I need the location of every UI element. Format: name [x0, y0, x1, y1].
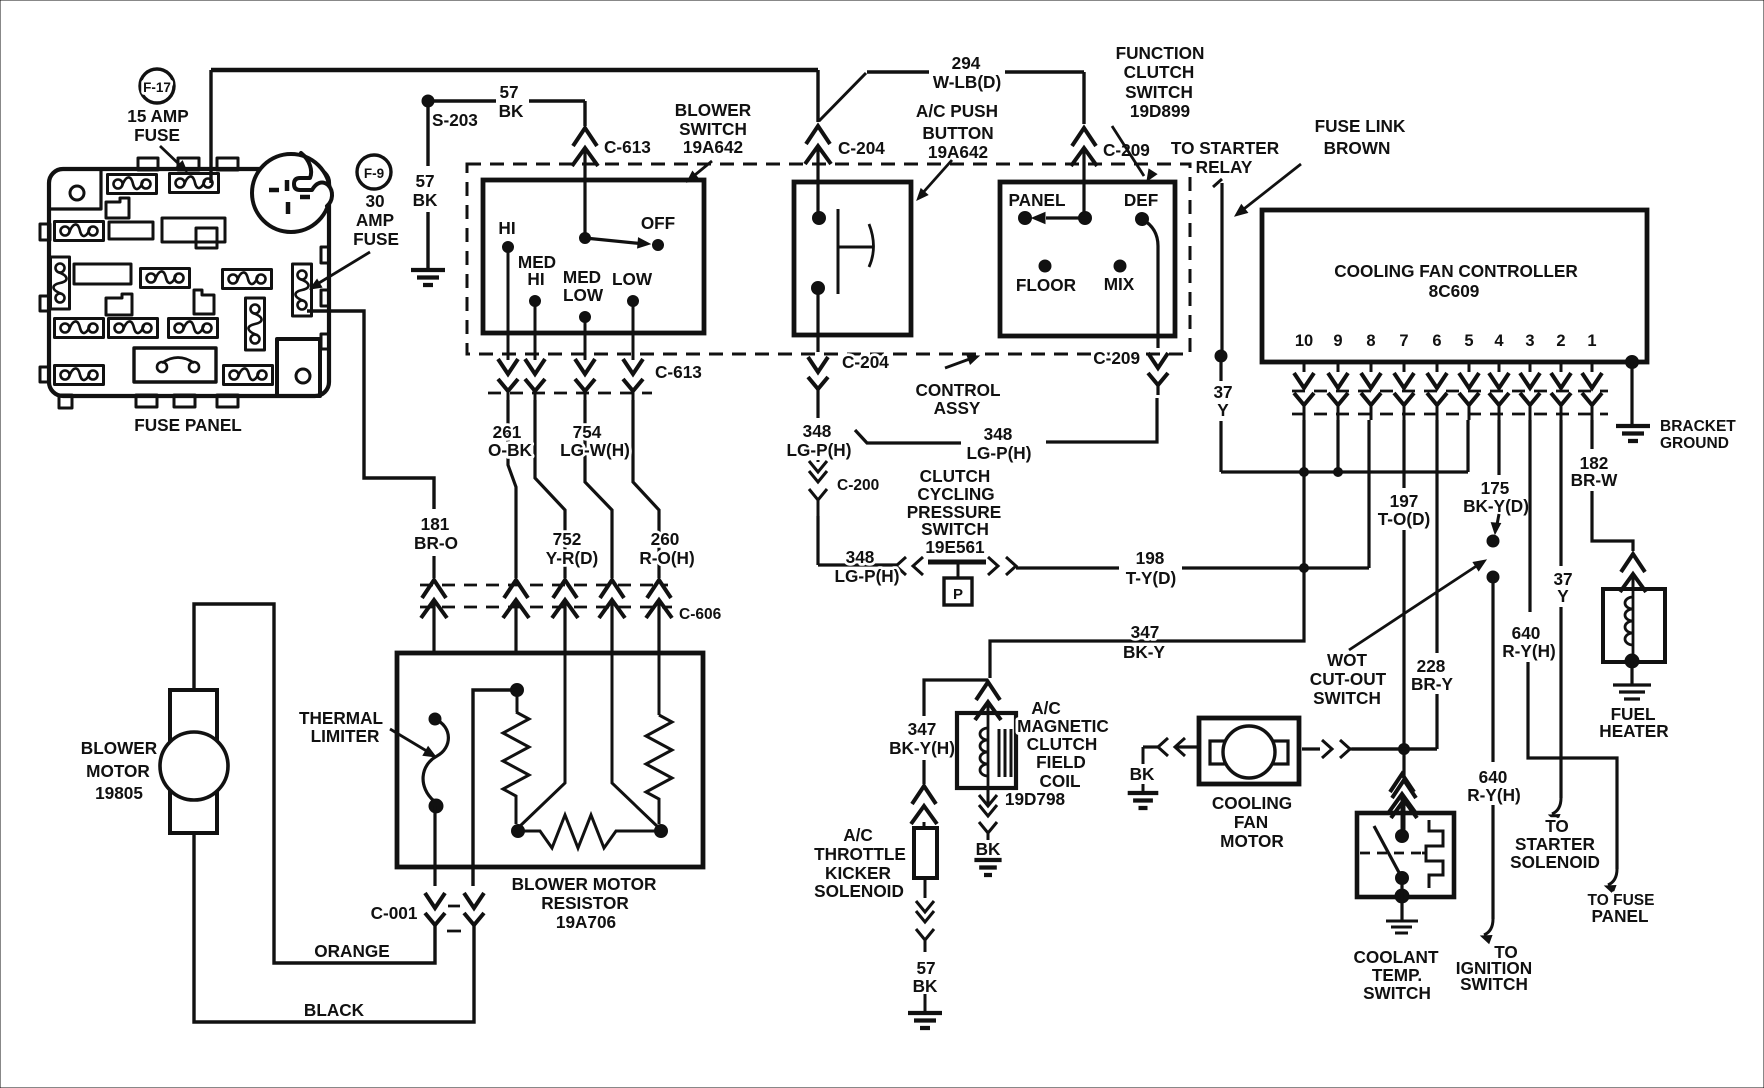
svg-text:A/C PUSH: A/C PUSH — [916, 101, 998, 121]
svg-text:197: 197 — [1390, 491, 1419, 511]
svg-text:C-204: C-204 — [838, 138, 885, 158]
svg-text:RESISTOR: RESISTOR — [541, 893, 629, 913]
svg-text:7: 7 — [1399, 332, 1408, 350]
svg-text:MED: MED — [563, 267, 601, 287]
svg-text:10: 10 — [1295, 332, 1313, 350]
svg-text:Y: Y — [1217, 400, 1229, 420]
svg-text:MAGNETIC: MAGNETIC — [1017, 716, 1109, 736]
svg-text:COIL: COIL — [1039, 771, 1080, 791]
svg-text:COOLING: COOLING — [1212, 793, 1292, 813]
svg-text:LG-P(H): LG-P(H) — [787, 440, 852, 460]
svg-text:OFF: OFF — [641, 213, 675, 233]
svg-text:BK-Y: BK-Y — [1123, 642, 1166, 662]
svg-text:CUT-OUT: CUT-OUT — [1310, 669, 1387, 689]
svg-text:WOT: WOT — [1327, 650, 1368, 670]
svg-text:THROTTLE: THROTTLE — [814, 844, 906, 864]
svg-text:3: 3 — [1525, 332, 1534, 350]
svg-text:19A642: 19A642 — [928, 142, 988, 162]
svg-text:260: 260 — [651, 529, 680, 549]
svg-text:19A706: 19A706 — [556, 912, 616, 932]
svg-text:181: 181 — [421, 514, 450, 534]
svg-text:PANEL: PANEL — [1592, 906, 1649, 926]
svg-text:O-BK: O-BK — [488, 440, 533, 460]
svg-text:C-200: C-200 — [837, 477, 879, 494]
svg-text:PANEL: PANEL — [1009, 190, 1066, 210]
svg-text:BRACKET: BRACKET — [1660, 418, 1736, 435]
svg-text:BK: BK — [413, 190, 438, 210]
svg-text:FUSE PANEL: FUSE PANEL — [134, 415, 242, 435]
svg-text:HEATER: HEATER — [1599, 721, 1669, 741]
svg-text:1: 1 — [1587, 332, 1596, 350]
svg-text:T-O(D): T-O(D) — [1378, 509, 1431, 529]
svg-text:SWITCH: SWITCH — [921, 519, 989, 539]
svg-text:8: 8 — [1366, 332, 1375, 350]
svg-text:THERMAL: THERMAL — [299, 708, 383, 728]
svg-text:SWITCH: SWITCH — [1460, 974, 1528, 994]
svg-text:SOLENOID: SOLENOID — [1510, 852, 1600, 872]
svg-text:SOLENOID: SOLENOID — [814, 881, 904, 901]
svg-text:37: 37 — [1213, 382, 1232, 402]
svg-text:TO STARTER: TO STARTER — [1171, 138, 1280, 158]
svg-text:SWITCH: SWITCH — [679, 119, 747, 139]
svg-text:Y-R(D): Y-R(D) — [546, 548, 599, 568]
svg-text:BLOWER: BLOWER — [675, 100, 752, 120]
svg-text:P: P — [953, 586, 963, 603]
svg-text:FLOOR: FLOOR — [1016, 275, 1077, 295]
svg-text:LIMITER: LIMITER — [311, 726, 380, 746]
svg-text:348: 348 — [803, 421, 832, 441]
svg-text:LG-P(H): LG-P(H) — [835, 566, 900, 586]
svg-text:SWITCH: SWITCH — [1125, 82, 1193, 102]
svg-text:BK: BK — [913, 976, 938, 996]
svg-text:C-209: C-209 — [1093, 348, 1140, 368]
svg-text:15 AMP: 15 AMP — [127, 106, 188, 126]
svg-text:FUSE: FUSE — [134, 125, 180, 145]
svg-text:CLUTCH: CLUTCH — [1027, 734, 1098, 754]
svg-text:294: 294 — [952, 53, 981, 73]
svg-text:CLUTCH: CLUTCH — [920, 466, 991, 486]
svg-text:FUSE LINK: FUSE LINK — [1315, 116, 1406, 136]
svg-text:C-204: C-204 — [842, 352, 889, 372]
svg-text:TO: TO — [1545, 816, 1569, 836]
svg-text:30: 30 — [365, 191, 384, 211]
svg-text:347: 347 — [908, 719, 937, 739]
svg-text:BUTTON: BUTTON — [922, 123, 993, 143]
svg-text:640: 640 — [1512, 623, 1541, 643]
svg-text:CLUTCH: CLUTCH — [1124, 62, 1195, 82]
svg-text:9: 9 — [1333, 332, 1342, 350]
svg-text:4: 4 — [1494, 332, 1504, 350]
svg-text:C-001: C-001 — [371, 903, 418, 923]
svg-text:BLOWER MOTOR: BLOWER MOTOR — [512, 874, 657, 894]
svg-text:BK-Y(H): BK-Y(H) — [889, 738, 955, 758]
svg-text:Y: Y — [1557, 586, 1569, 606]
svg-text:640: 640 — [1479, 767, 1508, 787]
svg-text:LOW: LOW — [612, 269, 653, 289]
svg-text:STARTER: STARTER — [1515, 834, 1595, 854]
svg-text:C-613: C-613 — [604, 137, 651, 157]
svg-text:S-203: S-203 — [432, 110, 478, 130]
svg-text:BLOWER: BLOWER — [81, 738, 158, 758]
svg-text:C-613: C-613 — [655, 362, 702, 382]
svg-text:19E561: 19E561 — [925, 537, 985, 557]
svg-text:19805: 19805 — [95, 783, 143, 803]
svg-text:198: 198 — [1136, 548, 1165, 568]
svg-text:FUNCTION: FUNCTION — [1116, 43, 1205, 63]
svg-text:261: 261 — [493, 422, 522, 442]
svg-text:A/C: A/C — [1031, 698, 1061, 718]
svg-text:BK: BK — [976, 839, 1001, 859]
svg-text:SWITCH: SWITCH — [1313, 688, 1381, 708]
svg-text:19A642: 19A642 — [683, 137, 743, 157]
svg-text:COOLANT: COOLANT — [1354, 947, 1439, 967]
svg-text:HI: HI — [527, 269, 544, 289]
svg-text:BK: BK — [499, 101, 524, 121]
svg-text:BLACK: BLACK — [304, 1000, 365, 1020]
svg-text:AMP: AMP — [356, 210, 394, 230]
svg-text:FUSE: FUSE — [353, 229, 399, 249]
svg-text:57: 57 — [415, 171, 434, 191]
svg-text:KICKER: KICKER — [825, 863, 891, 883]
svg-text:19D798: 19D798 — [1005, 789, 1066, 809]
svg-text:CYCLING: CYCLING — [917, 484, 994, 504]
svg-text:HI: HI — [498, 218, 515, 238]
svg-text:C-606: C-606 — [679, 606, 722, 623]
svg-text:2: 2 — [1556, 332, 1565, 350]
svg-text:19D899: 19D899 — [1130, 101, 1190, 121]
svg-text:BR-O: BR-O — [414, 533, 458, 553]
svg-text:754: 754 — [573, 422, 602, 442]
svg-text:57: 57 — [916, 958, 935, 978]
svg-text:175: 175 — [1481, 478, 1510, 498]
svg-text:TEMP.: TEMP. — [1372, 965, 1422, 985]
svg-text:348: 348 — [846, 547, 875, 567]
svg-text:BK: BK — [1130, 764, 1155, 784]
svg-text:348: 348 — [984, 424, 1013, 444]
svg-text:F-17: F-17 — [143, 80, 171, 95]
svg-text:R-Y(H): R-Y(H) — [1502, 641, 1555, 661]
svg-text:BK-Y(D): BK-Y(D) — [1463, 496, 1529, 516]
svg-text:LG-P(H): LG-P(H) — [967, 443, 1032, 463]
svg-text:FIELD: FIELD — [1036, 752, 1086, 772]
svg-text:ASSY: ASSY — [934, 398, 981, 418]
svg-text:MOTOR: MOTOR — [1220, 831, 1284, 851]
svg-text:BR-Y: BR-Y — [1411, 674, 1454, 694]
svg-text:SWITCH: SWITCH — [1363, 983, 1431, 1003]
svg-text:347: 347 — [1131, 622, 1160, 642]
svg-text:LG-W(H): LG-W(H) — [560, 440, 630, 460]
svg-text:5: 5 — [1464, 332, 1473, 350]
svg-text:T-Y(D): T-Y(D) — [1126, 568, 1177, 588]
svg-text:MOTOR: MOTOR — [86, 761, 150, 781]
svg-text:A/C: A/C — [843, 825, 873, 845]
svg-text:ORANGE: ORANGE — [314, 941, 389, 961]
svg-text:752: 752 — [553, 529, 582, 549]
svg-text:BROWN: BROWN — [1324, 138, 1391, 158]
svg-text:CONTROL: CONTROL — [916, 380, 1001, 400]
svg-text:COOLING FAN CONTROLLER: COOLING FAN CONTROLLER — [1334, 261, 1578, 281]
svg-text:BR-W: BR-W — [1571, 470, 1619, 490]
svg-text:MIX: MIX — [1104, 274, 1135, 294]
svg-text:228: 228 — [1417, 656, 1446, 676]
svg-text:RELAY: RELAY — [1196, 157, 1253, 177]
svg-text:DEF: DEF — [1124, 190, 1158, 210]
svg-text:LOW: LOW — [563, 285, 604, 305]
svg-text:6: 6 — [1432, 332, 1441, 350]
svg-text:R-O(H): R-O(H) — [639, 548, 694, 568]
svg-text:F-9: F-9 — [364, 166, 384, 181]
svg-text:W-LB(D): W-LB(D) — [933, 72, 1001, 92]
svg-text:57: 57 — [499, 82, 518, 102]
svg-text:GROUND: GROUND — [1660, 435, 1729, 452]
svg-text:8C609: 8C609 — [1429, 281, 1480, 301]
svg-text:FAN: FAN — [1234, 812, 1268, 832]
svg-text:R-Y(H): R-Y(H) — [1467, 785, 1520, 805]
